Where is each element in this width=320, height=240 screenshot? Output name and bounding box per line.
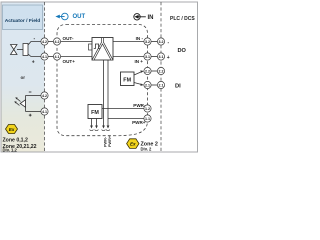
- svg-text:Ex: Ex: [9, 127, 15, 132]
- power rail A: [103, 60, 105, 126]
- svg-text:OUT+: OUT+: [63, 59, 76, 64]
- svg-text:2.2: 2.2: [159, 69, 164, 73]
- svg-text:Zone 0,1,2: Zone 0,1,2: [3, 137, 28, 143]
- svg-text:2.1: 2.1: [145, 83, 150, 87]
- wire IN-: [113, 41, 144, 43]
- svg-text:PWR+: PWR+: [108, 135, 112, 147]
- svg-text:Actuator / Field: Actuator / Field: [5, 18, 41, 24]
- wire PWR-: [102, 108, 144, 110]
- wire 4.1 pair link: [48, 56, 53, 58]
- LED indicator alternative: [15, 96, 26, 112]
- wire PWR+: [108, 118, 144, 120]
- power rail B: [107, 60, 109, 126]
- wire 3.1 pair link: [151, 56, 157, 58]
- svg-text:2.2: 2.2: [145, 69, 150, 73]
- svg-text:DO: DO: [178, 48, 187, 54]
- terminal 3.2 plug: [157, 38, 164, 45]
- terminal 3.1 module: [144, 53, 151, 60]
- terminals: [41, 38, 165, 122]
- zone boundary right: [160, 2, 162, 152]
- hazardous field area shading: [1, 2, 45, 152]
- bus socket arcs: [90, 130, 110, 131]
- Ex badge field: [6, 125, 18, 134]
- svg-text:1.1: 1.1: [145, 117, 150, 121]
- wire 2.2 pair link: [151, 70, 157, 72]
- wire 2.1 pair link: [151, 84, 157, 86]
- zone boundary left: [44, 2, 46, 152]
- terminal 4.1 plug: [41, 53, 48, 60]
- wire LED to 4.1: [26, 111, 41, 113]
- svg-text:Ex: Ex: [130, 141, 136, 146]
- svg-text:or: or: [21, 75, 26, 80]
- wire LED to 4.2: [26, 95, 41, 97]
- IN direction icon: [134, 14, 146, 20]
- FM pin down 2: [96, 119, 98, 127]
- svg-text:Div. 2: Div. 2: [141, 147, 153, 152]
- wire OUT-: [61, 41, 92, 43]
- svg-text:4.1: 4.1: [42, 55, 47, 59]
- terminal 1.2 module: [144, 105, 151, 112]
- FM box supply monitor: [88, 105, 102, 119]
- wire 3.2 pair link: [151, 41, 157, 43]
- Ex badge zone 2: [127, 139, 139, 149]
- svg-text:IN: IN: [148, 15, 154, 21]
- FM box fault monitor output: [121, 72, 135, 86]
- terminal 2.1 module: [144, 81, 151, 88]
- wire valve to 4.1: [28, 54, 41, 57]
- terminal 4.1 module: [53, 53, 60, 60]
- svg-text:4.2: 4.2: [42, 94, 47, 98]
- terminal 3.2 module: [144, 38, 151, 45]
- svg-text:PLC / DCS: PLC / DCS: [170, 16, 195, 22]
- terminal 1.1 module: [144, 115, 151, 122]
- terminal 2.1 plug: [157, 81, 164, 88]
- svg-text:Div. 1,2: Div. 1,2: [3, 148, 18, 153]
- svg-text:1.2: 1.2: [145, 107, 150, 111]
- terminal 3.1 plug: [157, 53, 164, 60]
- module outline: [57, 25, 148, 136]
- svg-text:PWR-: PWR-: [103, 136, 107, 147]
- svg-text:+: +: [167, 55, 170, 61]
- terminal 4.2 plug: [41, 38, 48, 45]
- polarity minus (LED): [29, 91, 32, 94]
- terminal 4.2 alt plug: [41, 92, 48, 99]
- polarity plus (LED): [29, 114, 32, 117]
- svg-text:4.2: 4.2: [55, 40, 60, 44]
- wire OUT+: [61, 56, 92, 58]
- drawing frame border: [1, 2, 198, 152]
- svg-text:2.1: 2.1: [159, 83, 164, 87]
- svg-text:3.1: 3.1: [159, 55, 164, 59]
- svg-text:OUT-: OUT-: [63, 36, 74, 41]
- terminal 4.1 alt plug: [41, 108, 48, 115]
- svg-text:+: +: [32, 60, 35, 66]
- svg-text:3.1: 3.1: [145, 55, 150, 59]
- wire FM to 2.2: [134, 72, 142, 75]
- svg-text:4.2: 4.2: [42, 40, 47, 44]
- svg-text:OUT: OUT: [73, 14, 86, 20]
- terminal 2.2 plug: [157, 67, 164, 74]
- svg-text:3.2: 3.2: [159, 40, 164, 44]
- wire 4.2 pair link: [48, 41, 53, 43]
- solenoid valve Y1: [11, 44, 29, 56]
- isolator block U1: [89, 44, 93, 50]
- svg-text:FM: FM: [91, 110, 99, 116]
- svg-text:3.2: 3.2: [145, 40, 150, 44]
- svg-text:IN -: IN -: [136, 36, 144, 41]
- svg-text:4.1: 4.1: [55, 55, 60, 59]
- wire FM to 2.1: [134, 83, 142, 85]
- FM pin down 1: [91, 119, 93, 127]
- terminal 2.2 module: [144, 67, 151, 74]
- svg-text:FM: FM: [123, 77, 131, 83]
- wire IN+: [113, 56, 144, 58]
- terminal 4.2 module: [53, 38, 60, 45]
- svg-text:PWR+: PWR+: [132, 120, 146, 125]
- OUT direction icon: [59, 13, 69, 20]
- svg-text:IN +: IN +: [134, 59, 143, 64]
- svg-text:DI: DI: [175, 83, 181, 89]
- header box Actuator / Field: [3, 5, 43, 30]
- svg-text:4.1: 4.1: [42, 110, 47, 114]
- wire valve to 4.2: [28, 42, 41, 46]
